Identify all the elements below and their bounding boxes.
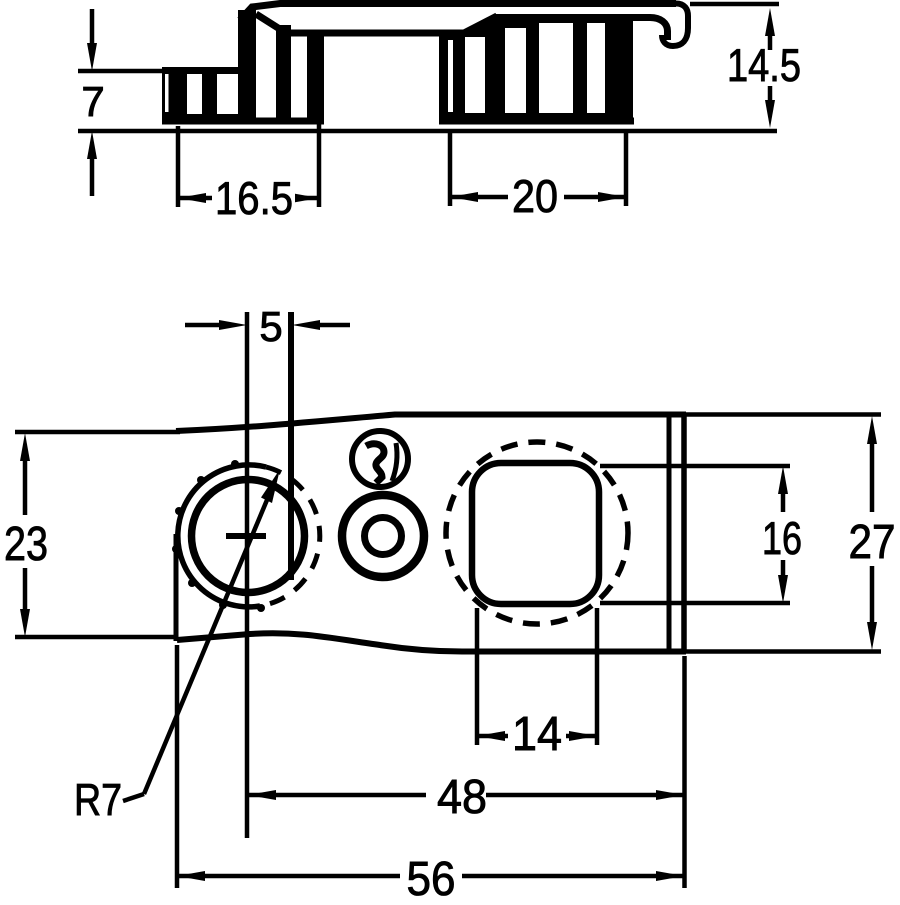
toothed outer circle: dashed right half (260, 467, 320, 606)
toothed outer circle: solid left half (178, 465, 266, 607)
small donut circle (342, 495, 424, 577)
hook inner tongue (650, 18, 668, 41)
round hole R7 (solid circle) (192, 480, 305, 593)
dim 7 (left) (81, 9, 104, 196)
arm bottom edge (left diagonal, mid span, bevel, top band) (256, 14, 466, 33)
dashed circle around square hole (446, 442, 628, 624)
svg-text:7: 7 (81, 78, 104, 125)
extension line: bottom-left (for dim 23) (15, 635, 178, 640)
svg-text:R7: R7 (74, 774, 122, 825)
extension lines to the right (for dim 27) (686, 412, 881, 417)
part top edge (176, 415, 686, 432)
dim 16 (right of square hole) (600, 466, 802, 603)
flat chord line (right ext of dim 5) (288, 312, 294, 580)
svg-text:14: 14 (512, 708, 562, 761)
R7 leader line with arrow (74, 469, 280, 825)
left low ribbed pad (162, 67, 243, 120)
svg-text:27: 27 (849, 516, 896, 569)
serration nubs (172, 460, 265, 612)
bottom reference line (common, for dims 7/16.5/20/14.5) (78, 129, 777, 134)
extension line: top-left (for dim 23) collinear with part top edge (15, 430, 180, 435)
svg-text:23: 23 (4, 518, 48, 571)
dim 20 (450, 133, 626, 222)
rounded square hole (472, 463, 599, 604)
hook (outer curl) at right end of arm (662, 4, 688, 47)
part left end face (174, 534, 179, 641)
left foot plate (162, 118, 324, 125)
svg-text:20: 20 (512, 170, 558, 222)
svg-text:14.5: 14.5 (727, 39, 801, 91)
dim 14 (below square hole) (477, 608, 597, 761)
arm top edge with left bevel (240, 4, 676, 21)
part bottom edge (177, 633, 686, 651)
svg-text:16.5: 16.5 (215, 172, 293, 224)
extension line: top of left pad (for dim 7) (78, 69, 166, 74)
dim 56 (177, 853, 684, 905)
dim 27 (far right) (849, 416, 896, 650)
dim 5 (185, 303, 350, 350)
svg-text:48: 48 (437, 771, 487, 824)
dim 23 (left) (4, 433, 48, 637)
right foot plate (439, 118, 634, 125)
dim 48 (177, 645, 685, 888)
svg-text:5: 5 (259, 303, 282, 350)
right end groove lines (667, 414, 672, 651)
centre cross bar (226, 533, 266, 539)
svg-text:16: 16 (762, 512, 802, 564)
dim 14.5 (right of top view) (690, 4, 801, 128)
left tall ribbed post section (238, 10, 324, 121)
small circle with clip cross-section squiggle (352, 431, 408, 487)
right ribbed block (439, 14, 633, 119)
centre line of hole (left ext of dim 5 / 48) (245, 312, 250, 838)
dim 16.5 (178, 123, 319, 224)
svg-text:56: 56 (407, 853, 456, 900)
